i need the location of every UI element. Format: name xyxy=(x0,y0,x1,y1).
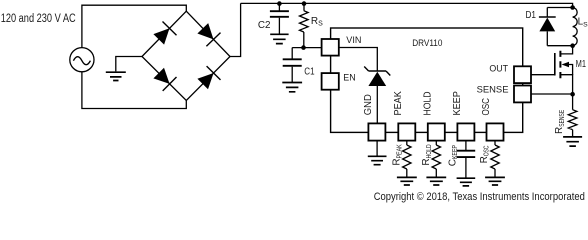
ground (RHOLD) xyxy=(426,177,446,185)
inductor LS xyxy=(573,8,578,46)
bridge rectifier outline xyxy=(142,11,230,100)
svg-text:KEEP: KEEP xyxy=(452,91,463,115)
wire: SENSE pin to source node xyxy=(531,93,573,95)
resistor ROSC xyxy=(491,145,499,169)
pin box EN xyxy=(322,73,339,90)
svg-text:EN: EN xyxy=(343,73,356,84)
AC source xyxy=(70,48,94,72)
svg-text:OUT: OUT xyxy=(489,63,508,74)
svg-text:OSC: OSC xyxy=(481,98,492,116)
node: C2 junction on rail xyxy=(277,1,282,6)
wire: bridge left node to ground xyxy=(116,57,142,72)
transistor M1 gate bar xyxy=(554,53,556,76)
capacitor CKEEP xyxy=(457,151,476,157)
zener diode (internal) xyxy=(364,67,390,76)
transistor M1 body arrow xyxy=(562,62,570,68)
wire: AC source top to bridge top node xyxy=(82,5,186,47)
wire: OSC pin down xyxy=(494,141,496,145)
ground (C1) xyxy=(282,83,302,92)
svg-text:C1: C1 xyxy=(304,67,315,78)
svg-text:D1: D1 xyxy=(526,10,537,21)
wire: top supply rail xyxy=(241,3,573,7)
svg-text:GND: GND xyxy=(363,94,374,115)
wire: VIN pin to zener xyxy=(338,48,377,71)
svg-text:SENSE: SENSE xyxy=(477,85,509,96)
svg-text:VIN: VIN xyxy=(346,35,361,46)
wire: HOLD pin down xyxy=(435,141,437,145)
ground (C2) xyxy=(270,34,288,43)
pin box SENSE xyxy=(514,86,531,103)
wire: PEAK pin down xyxy=(406,141,408,145)
ground (CKEEP) xyxy=(457,178,476,186)
node: coil bottom / drain xyxy=(570,43,575,48)
ground (bridge) xyxy=(106,72,126,80)
bridge diode top-left xyxy=(153,28,169,44)
pin box OUT xyxy=(514,66,531,83)
capacitor C1 xyxy=(291,48,293,59)
wire: OUT pin to gate xyxy=(531,74,555,76)
node: coil top xyxy=(570,5,575,10)
bridge diode bottom-right xyxy=(197,73,213,89)
svg-text:C2: C2 xyxy=(258,20,271,31)
pin box KEEP xyxy=(457,123,474,140)
pin box GND xyxy=(368,123,385,140)
pin box HOLD xyxy=(428,123,445,140)
svg-text:HOLD: HOLD xyxy=(422,92,433,116)
resistor RS xyxy=(303,3,305,10)
wire: GND pin to ground xyxy=(376,141,378,156)
wire: D1 top to coil node xyxy=(547,7,572,9)
svg-text:120 and 230 V AC: 120 and 230 V AC xyxy=(1,13,76,25)
transistor M1 drain lead xyxy=(560,46,572,54)
svg-text:Copyright © 2018, Texas Instru: Copyright © 2018, Texas Instruments Inco… xyxy=(374,191,585,203)
wire: bridge right node up to top rail xyxy=(230,3,241,56)
resistor RSENSE xyxy=(572,94,574,110)
resistor RHOLD xyxy=(432,145,440,169)
diode D1 xyxy=(546,8,548,18)
ground (RSENSE) xyxy=(563,137,582,146)
pin box PEAK xyxy=(398,123,415,140)
transistor M1 source lead xyxy=(560,75,572,94)
node: Rs bottom junction xyxy=(301,45,306,50)
wire: AC source bottom to bridge bottom node xyxy=(82,72,186,109)
op IC U1 DRV110 body xyxy=(331,28,523,132)
ground (RPEAK) xyxy=(397,177,417,185)
bridge diode bottom-left xyxy=(153,68,169,84)
pin box VIN xyxy=(322,39,339,56)
bridge diode top-right xyxy=(197,23,213,39)
svg-text:PEAK: PEAK xyxy=(393,91,404,116)
node: sense junction xyxy=(570,92,575,97)
svg-text:M1: M1 xyxy=(576,59,587,70)
capacitor C2 xyxy=(278,3,280,10)
ground (GND pin) xyxy=(368,156,387,164)
ground (ROSC) xyxy=(485,177,505,185)
wire: junction to VIN pin xyxy=(292,47,322,49)
transistor M1 channel segments xyxy=(559,51,561,78)
wire: D1 bottom to coil node xyxy=(547,45,572,47)
svg-text:DRV110: DRV110 xyxy=(412,38,442,48)
wire: KEEP pin down xyxy=(465,141,467,151)
pin box OSC xyxy=(487,123,504,140)
resistor RPEAK xyxy=(403,145,411,169)
node: Rs junction on rail xyxy=(302,1,307,6)
